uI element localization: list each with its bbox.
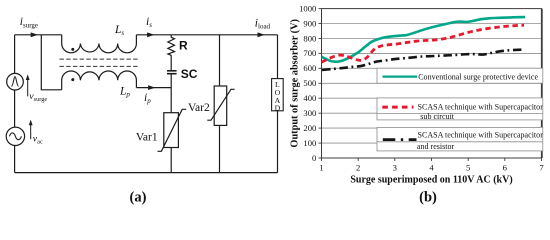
wire bottom rail [15,172,278,174]
sine symbol inside vac [9,133,21,140]
svg-text:800: 800 [303,33,316,43]
svg-text:vac: vac [33,134,43,146]
transformer core dashed lines [60,59,140,66]
svg-text:vsurge: vsurge [29,91,47,103]
wire secondary output ip [136,87,171,89]
arrow ip on wire [148,85,155,90]
legend box 1 [377,68,543,83]
svg-text:0: 0 [312,153,316,163]
svg-text:2: 2 [356,163,360,173]
legend swatch black dashdot [383,138,417,141]
svg-text:Var2: Var2 [188,102,210,114]
svg-text:6: 6 [503,163,508,173]
svg-text:(b): (b) [419,190,437,206]
arrow is on top wire [147,32,154,37]
wire primary left vertical [41,35,61,90]
legend box 3 [377,127,543,150]
arrow vsurge reference [26,74,30,96]
x axis ticks [322,158,542,161]
svg-text:Var1: Var1 [136,132,158,144]
svg-text:ip: ip [144,92,151,105]
svg-text:400: 400 [303,93,316,103]
y axis ticks [319,9,322,158]
svg-text:R: R [179,39,188,53]
svg-text:700: 700 [303,48,316,58]
transformer Lp bottom winding [62,71,137,90]
legend swatch teal [383,75,418,77]
svg-text:iload: iload [255,17,271,30]
wire between sources [14,90,16,127]
arrow isurge on top wire [31,32,38,37]
plot right border thick [541,9,543,158]
svg-text:4: 4 [429,163,434,173]
svg-text:300: 300 [303,108,316,118]
svg-text:SCASA technique with Supercapa: SCASA technique with Supercapacitor [418,130,544,139]
svg-text:Output of surge absorber (V): Output of surge absorber (V) [290,19,301,148]
svg-text:500: 500 [303,78,316,88]
legend swatch red dashed [382,106,413,109]
curve scasa supercap red dashed [322,25,525,62]
curve scasa supercap resistor black dashdot [322,50,524,70]
svg-text:Ls: Ls [114,24,124,37]
y axis labels [299,3,316,162]
wire top rail right of transformer [136,34,277,36]
curve conventional teal [322,17,526,62]
wire left vertical top [14,35,16,74]
svg-text:1000: 1000 [299,3,316,13]
wire Var1 bottom lead [170,148,172,173]
capacitor SC plates [167,71,177,74]
varistor Var2 [207,86,234,125]
arrow iload on top wire [258,32,265,37]
svg-text:600: 600 [303,63,316,73]
svg-text:Lp: Lp [119,85,130,98]
svg-text:SCASA technique with Supercapa: SCASA technique with Supercapacitor [418,103,544,112]
wire SC to node M and Var1 [170,74,172,113]
arrow vac reference [29,120,33,140]
legend box 2 divider [377,112,543,114]
wire R branch top lead [170,35,172,38]
svg-text:is: is [146,16,152,29]
wire right rail bottom [277,110,279,173]
svg-text:D: D [275,103,281,112]
svg-text:Surge superimposed on 110V AC: Surge superimposed on 110V AC (kV) [350,175,512,186]
transformer Ls top winding [62,35,137,53]
dot Ls polarity [71,48,74,51]
wire top rail [15,34,62,36]
svg-text:1: 1 [319,163,323,173]
wire Var2 bottom lead [219,125,221,172]
plot frame [322,9,542,158]
svg-text:isurge: isurge [20,16,38,29]
wire between R and SC [170,55,172,71]
wire below vac source [14,146,16,173]
dot Lp polarity [71,78,74,81]
svg-text:900: 900 [303,18,316,28]
resistor R zigzag [168,37,175,55]
svg-text:Conventional surge protective: Conventional surge protective device [418,72,538,81]
svg-text:100: 100 [303,138,316,148]
source V1 vsurge circle [7,73,24,90]
impulse symbol inside vsurge [11,77,18,87]
legend box 2 [377,98,543,120]
svg-text:(a): (a) [130,190,147,206]
svg-text:and resistor: and resistor [417,142,455,151]
svg-text:3: 3 [393,163,397,173]
source V2 vac circle [6,127,24,145]
legend box 3 divider [377,141,543,143]
varistor Var1 [158,109,187,151]
gridlines [322,24,542,144]
svg-text:SC: SC [181,67,198,81]
svg-text:5: 5 [466,163,470,173]
x axis labels [319,163,544,173]
wire right rail top [277,35,279,79]
svg-text:7: 7 [539,163,544,173]
load letters [275,80,281,112]
svg-text:sub circuit: sub circuit [420,112,455,121]
svg-text:200: 200 [303,123,316,133]
load block [272,79,284,111]
wire Var2 branch top [219,35,221,86]
